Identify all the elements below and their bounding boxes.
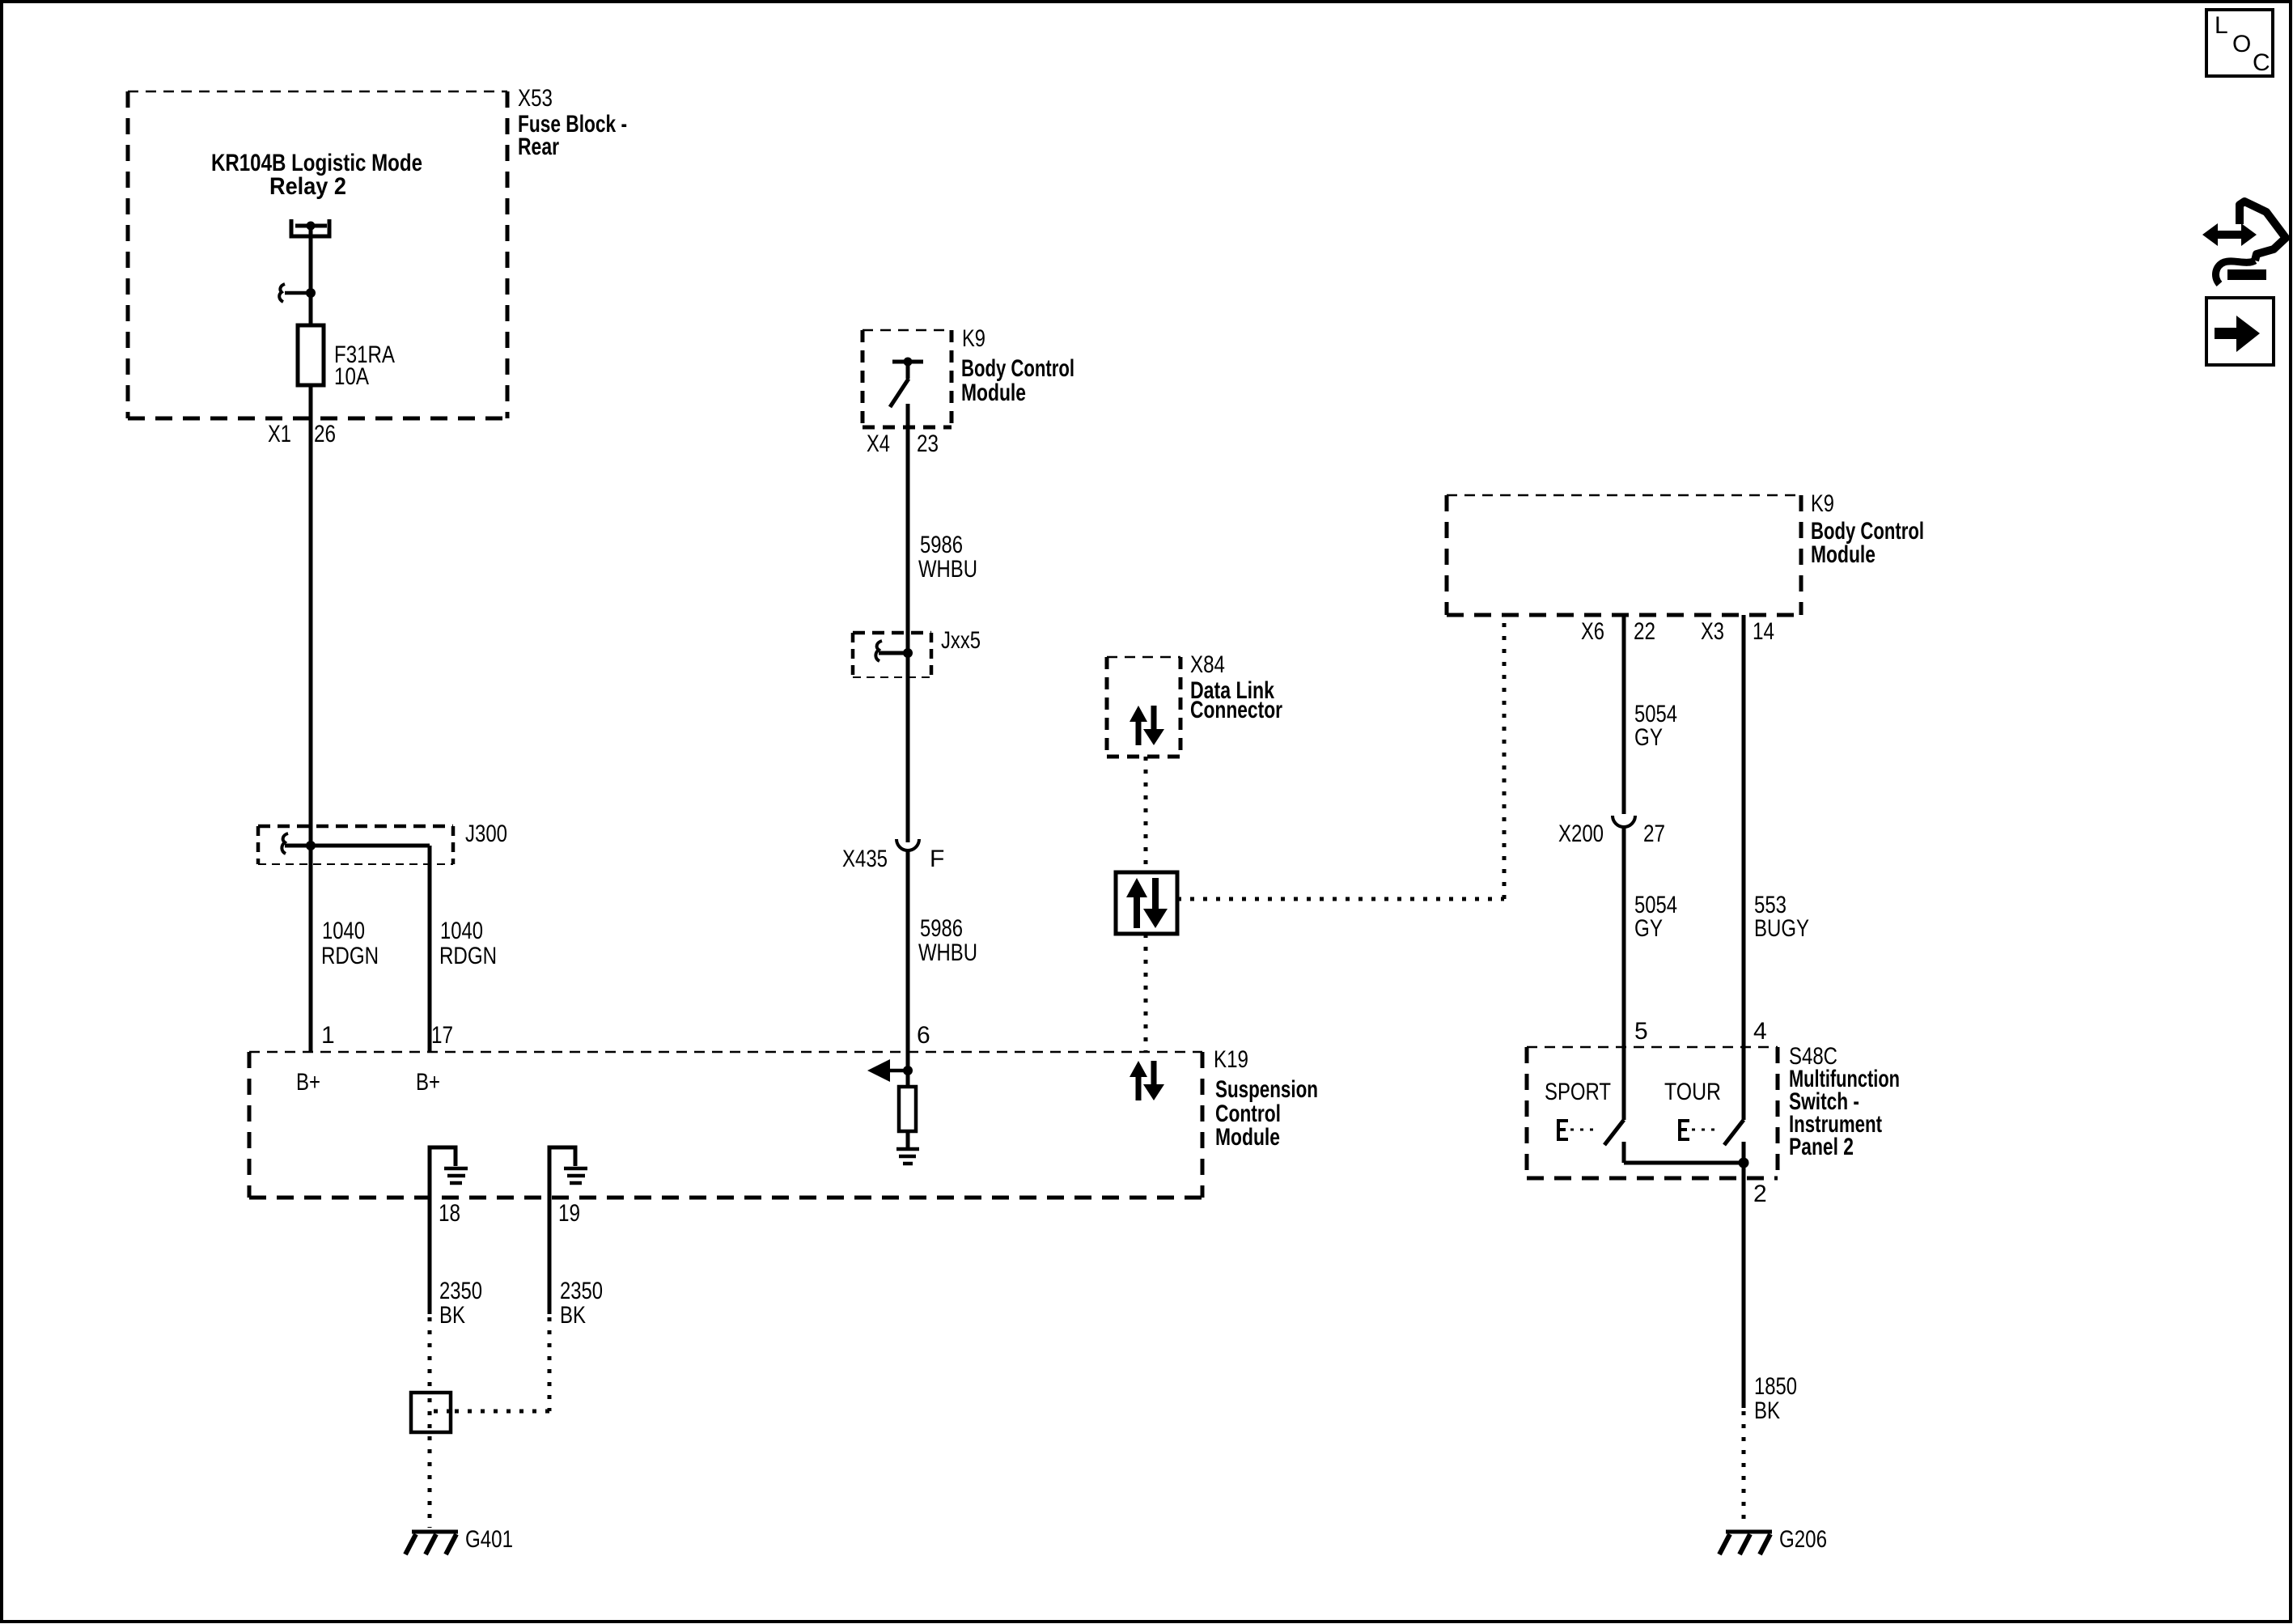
svg-text:Jxx5: Jxx5	[941, 627, 981, 654]
svg-text:O: O	[2232, 31, 2251, 57]
svg-text:F: F	[930, 846, 944, 872]
svg-text:X200: X200	[1558, 820, 1604, 847]
svg-text:GY: GY	[1634, 915, 1663, 942]
svg-text:B+: B+	[416, 1069, 440, 1096]
ground G206	[1719, 1526, 1827, 1554]
svg-text:X3: X3	[1701, 618, 1724, 645]
in-line connector X200	[1558, 816, 1665, 847]
fuse F31RA 10A	[298, 325, 395, 390]
svg-text:G401: G401	[465, 1526, 513, 1553]
svg-text:C: C	[2253, 49, 2270, 76]
wire label 5986 WHBU (upper)	[918, 532, 977, 583]
svg-text:X435: X435	[842, 846, 888, 872]
wire: splice block to ground G401	[428, 1436, 432, 1528]
svg-text:22: 22	[1634, 618, 1655, 645]
wire label 5986 WHBU (lower)	[918, 915, 977, 966]
internal resistor	[899, 1071, 916, 1148]
LOC reference box	[2206, 10, 2273, 76]
fuse block X53 box	[128, 91, 507, 418]
wire label 1040 RDGN (right)	[439, 918, 497, 969]
splice Jxx5 box	[853, 627, 981, 677]
svg-text:17: 17	[431, 1022, 453, 1049]
svg-text:BK: BK	[439, 1302, 465, 1329]
K9 (top) labels Body Control Module	[961, 325, 1074, 406]
wire: pin 19 dotted down and left to splice block	[451, 1317, 549, 1411]
svg-text:WHBU: WHBU	[918, 939, 977, 966]
wire: switch common junction	[1624, 1158, 1749, 1168]
TOUR switch contact	[1680, 1120, 1744, 1163]
svg-text:10A: 10A	[334, 363, 369, 390]
ground splice block	[411, 1393, 451, 1432]
serial data gateway box	[1116, 872, 1177, 934]
wire: X435 to K19 pin 6 (5986 WHBU)	[906, 850, 910, 1071]
svg-text:Body Control: Body Control	[961, 355, 1074, 382]
relay KR104B contact	[279, 284, 316, 302]
wire: coil to fuse	[309, 226, 313, 325]
fuse block labels X53 Fuse Block - Rear	[518, 85, 627, 160]
S48C labels Multifunction Switch - Instrument Panel 2	[1789, 1043, 1900, 1160]
svg-text:TOUR: TOUR	[1664, 1079, 1721, 1105]
svg-text:Panel 2: Panel 2	[1789, 1134, 1854, 1160]
wire: S48C pin 2 (1850 BK) solid part	[1742, 1163, 1746, 1408]
body control module K9 box (right)	[1447, 495, 1801, 615]
internal signal ground	[896, 1149, 919, 1164]
internal switch in K9	[890, 358, 923, 408]
svg-text:27: 27	[1643, 820, 1665, 847]
wire: K9 X6-22 to X200 (5054 GY)	[1622, 615, 1626, 814]
svg-text:Rear: Rear	[518, 134, 559, 160]
wire: pin 18 dotted to splice block	[428, 1317, 432, 1393]
relay KR104B name	[211, 150, 422, 200]
ground G401	[405, 1526, 513, 1554]
svg-text:2350: 2350	[439, 1278, 482, 1304]
svg-text:1040: 1040	[322, 918, 365, 944]
SPORT switch contact	[1558, 1120, 1624, 1163]
svg-text:BK: BK	[1754, 1397, 1780, 1424]
splice J300 symbol	[282, 833, 430, 854]
svg-text:X6: X6	[1581, 618, 1604, 645]
wire label 5054 GY (upper)	[1634, 701, 1677, 751]
wire: splice J300 to K19 pin 17 (1040 RDGN)	[428, 846, 432, 1052]
svg-text:Module: Module	[1215, 1124, 1280, 1151]
svg-text:L: L	[2215, 12, 2228, 39]
wire label 5054 GY (lower)	[1634, 892, 1677, 942]
svg-text:1040: 1040	[440, 918, 483, 944]
svg-text:G206: G206	[1779, 1526, 1827, 1553]
suspension control module K19 box	[249, 1052, 1202, 1198]
svg-text:K19: K19	[1214, 1046, 1248, 1073]
svg-text:Module: Module	[1811, 541, 1876, 568]
svg-text:K9: K9	[962, 325, 985, 352]
wire: K9 pin 23 to X435 (5986 WHBU)	[906, 404, 910, 842]
svg-text:Module: Module	[961, 379, 1026, 406]
svg-text:X53: X53	[518, 85, 553, 112]
svg-text:2350: 2350	[560, 1278, 603, 1304]
data link connector X84 box	[1107, 657, 1180, 757]
wire label 1040 RDGN (left)	[321, 918, 379, 969]
K9 (right) labels Body Control Module	[1811, 490, 1924, 568]
wire: dotted to ground G206	[1742, 1411, 1746, 1528]
svg-text:26: 26	[314, 421, 336, 447]
dotted bus: gateway down to K19	[1144, 934, 1148, 1052]
svg-text:RDGN: RDGN	[439, 943, 497, 969]
svg-text:5986: 5986	[920, 532, 963, 558]
svg-text:Connector: Connector	[1190, 697, 1282, 723]
svg-text:2: 2	[1753, 1181, 1767, 1207]
wire label 2350 BK (pin 18)	[439, 1278, 482, 1329]
harness routing icon with double arrow	[2202, 201, 2286, 284]
X84 labels Data Link Connector	[1190, 651, 1282, 723]
svg-text:B+: B+	[296, 1069, 320, 1096]
pin X1 26 labels	[268, 421, 336, 447]
svg-text:GY: GY	[1634, 724, 1663, 751]
svg-text:X1: X1	[268, 421, 291, 447]
svg-text:X84: X84	[1190, 651, 1225, 678]
splice Jxx5 symbol	[875, 641, 913, 661]
relay KR104B coil	[291, 219, 329, 236]
svg-text:BUGY: BUGY	[1754, 915, 1809, 942]
internal ground hook (pin 19)	[549, 1147, 587, 1198]
wire: K9 X3-14 to S48C pin 4 (553 BUGY)	[1742, 615, 1746, 1120]
svg-text:1850: 1850	[1754, 1373, 1797, 1400]
svg-text:19: 19	[558, 1200, 580, 1227]
svg-text:5: 5	[1634, 1018, 1648, 1045]
svg-text:J300: J300	[465, 820, 507, 847]
svg-text:18: 18	[439, 1200, 460, 1227]
svg-text:4: 4	[1753, 1018, 1767, 1045]
internal ground hook (pin 18)	[430, 1147, 468, 1198]
svg-text:14: 14	[1753, 618, 1774, 645]
wire label 1850 BK	[1754, 1373, 1797, 1424]
wire: pin 19 (2350 BK) solid part	[548, 1198, 552, 1314]
dotted bus: X84 to gateway box	[1144, 757, 1148, 872]
dotted bus: gateway right then up to K9	[1177, 615, 1504, 899]
svg-text:23: 23	[917, 430, 939, 457]
splice J300 box	[258, 820, 507, 864]
pin X4 23 labels	[867, 430, 939, 457]
internal serial data arrows	[1130, 1061, 1164, 1100]
internal left arrow at pin 6	[867, 1059, 913, 1082]
multifunction switch S48C box	[1527, 1047, 1778, 1178]
wire: fuse to splice J300 (circuit 1040 RDGN)	[309, 385, 313, 846]
in-line connector X435	[842, 839, 944, 872]
wire: pin 18 (2350 BK) solid part	[428, 1198, 432, 1314]
svg-text:BK: BK	[560, 1302, 586, 1329]
wire: splice J300 to K19 pin 1	[309, 846, 313, 1052]
continuation arrow box	[2206, 298, 2274, 365]
svg-text:WHBU: WHBU	[918, 556, 977, 583]
K19 labels Suspension Control Module	[1214, 1046, 1318, 1151]
svg-text:Relay 2: Relay 2	[269, 173, 346, 200]
X84 serial data arrows	[1130, 706, 1164, 745]
svg-text:6: 6	[917, 1022, 930, 1049]
svg-text:X4: X4	[867, 430, 890, 457]
svg-text:RDGN: RDGN	[321, 943, 379, 969]
wire label 2350 BK (pin 19)	[560, 1278, 603, 1329]
wire label 553 BUGY	[1754, 892, 1809, 942]
pin X6 22 X3 14 labels	[1581, 618, 1774, 645]
svg-text:SPORT: SPORT	[1545, 1079, 1611, 1105]
svg-text:Suspension: Suspension	[1215, 1076, 1318, 1103]
svg-text:K9: K9	[1811, 490, 1834, 517]
svg-text:5986: 5986	[920, 915, 963, 942]
wire: X200 to S48C pin 5 (5054 GY)	[1622, 827, 1626, 1120]
svg-text:1: 1	[321, 1022, 335, 1049]
body control module K9 box (top)	[863, 330, 952, 427]
